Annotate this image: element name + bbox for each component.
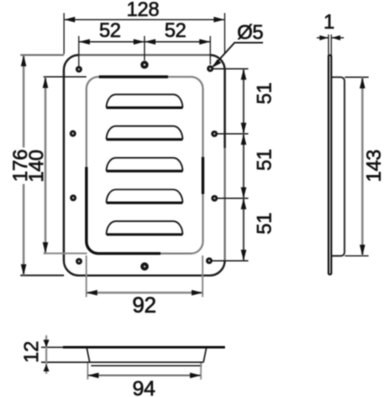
tray thick segments xyxy=(86,77,202,254)
bottom view flange line xyxy=(41,346,63,348)
dim 12 line xyxy=(45,335,47,374)
svg-text:92: 92 xyxy=(132,293,156,318)
front view recessed tray xyxy=(86,77,202,254)
dim 140 extension lines xyxy=(43,76,86,78)
dim 128 line xyxy=(64,19,225,21)
side view tray profile xyxy=(332,77,345,256)
svg-text:12: 12 xyxy=(21,341,43,363)
dim 51 line xyxy=(243,69,245,261)
mounting holes xyxy=(71,62,217,269)
dim 176 line xyxy=(23,55,25,275)
dim 143 line xyxy=(361,77,363,256)
dim 52-52 line xyxy=(79,41,211,43)
svg-text:51: 51 xyxy=(254,149,276,171)
svg-text:51: 51 xyxy=(254,213,276,235)
dim 1 extension lines xyxy=(329,35,332,56)
svg-text:52: 52 xyxy=(164,20,186,42)
dim 128 extension lines xyxy=(64,13,225,54)
dim 52 extension lines xyxy=(79,36,211,66)
svg-text:52: 52 xyxy=(99,20,121,42)
svg-text:1: 1 xyxy=(323,12,334,34)
dim 94 extension lines xyxy=(88,363,201,380)
dim 92 extension lines xyxy=(86,256,202,298)
svg-text:143: 143 xyxy=(363,149,385,182)
dim 176 text xyxy=(12,148,29,185)
svg-text:51: 51 xyxy=(254,82,276,104)
louver slots xyxy=(106,94,182,234)
dim 140 line xyxy=(44,77,46,253)
dim 92 line xyxy=(86,292,202,294)
svg-text:140: 140 xyxy=(26,150,48,183)
svg-text:Ø5: Ø5 xyxy=(237,22,263,44)
leader line xyxy=(234,42,263,44)
dim 176 extension lines xyxy=(20,54,64,56)
svg-text:94: 94 xyxy=(132,378,155,397)
dim 1 arrows xyxy=(317,37,328,39)
front view outer plate xyxy=(64,55,225,276)
side view flange xyxy=(329,55,332,274)
svg-text:128: 128 xyxy=(127,0,160,21)
dim 143 extension lines xyxy=(345,77,369,256)
dim 51 extension lines xyxy=(212,69,248,261)
dim 94 line xyxy=(88,374,201,376)
dim 140 text xyxy=(28,148,45,185)
bottom view tray profile xyxy=(41,348,206,366)
